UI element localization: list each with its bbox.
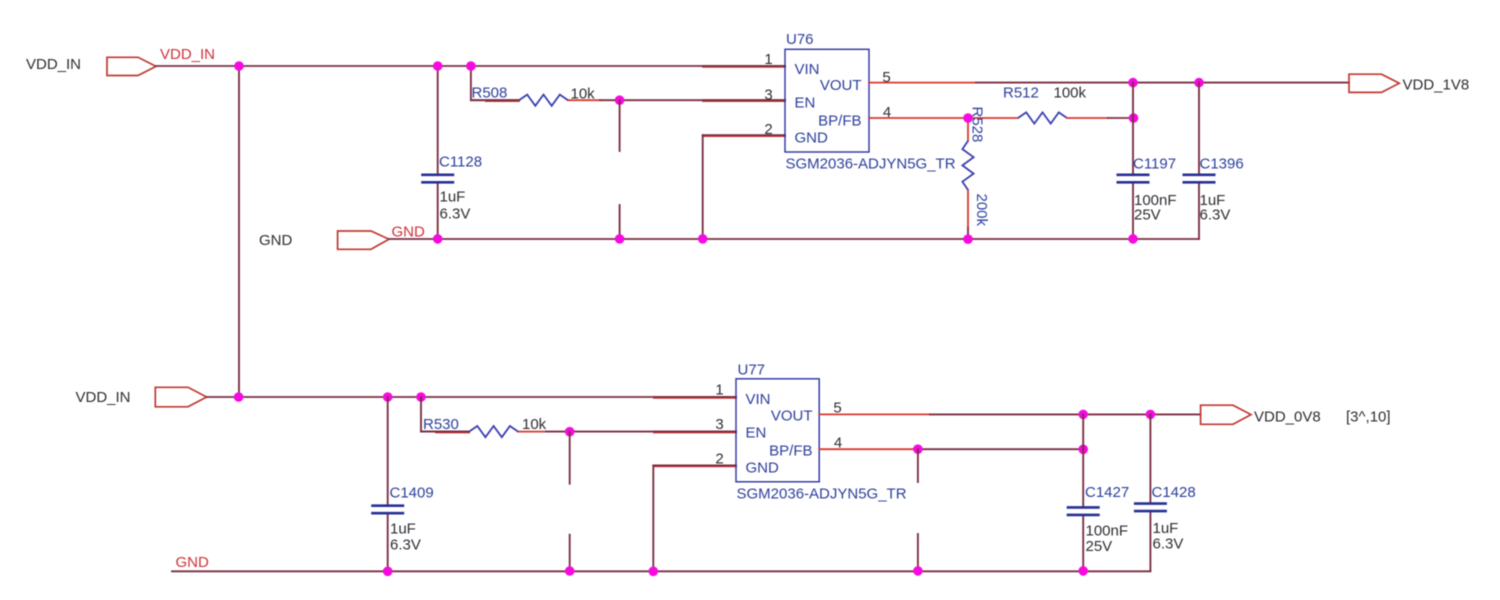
node junction (421,397) [416, 392, 426, 402]
capacitor C1128 [421, 154, 482, 223]
svg-text:1: 1 [715, 382, 723, 399]
svg-text:VDD_1V8: VDD_1V8 [1403, 77, 1470, 94]
svg-text:VDD_0V8: VDD_0V8 [1254, 409, 1321, 426]
node junction (653.3,571.3) [649, 567, 659, 577]
resistor R512 100k [1003, 85, 1108, 124]
label VDD_IN (black, circuit 2) [76, 389, 131, 406]
node junction (1083.2,449.3) [1078, 445, 1088, 455]
svg-text:VIN: VIN [795, 61, 820, 78]
svg-text:6.3V: 6.3V [1200, 207, 1231, 224]
wire stub above GND rail (c2 left) [569, 535, 571, 572]
pin 2 GND lead [703, 121, 785, 138]
svg-text:R530: R530 [423, 416, 459, 433]
pin 4 BP/FB lead [869, 104, 1018, 121]
pin 5 VOUT lead (U77) [819, 400, 930, 417]
pin 4 BP/FB lead (U77) [819, 435, 918, 452]
svg-text:VDD_IN: VDD_IN [26, 56, 81, 73]
wire left vertical trunk to circuit 2 [238, 66, 240, 397]
label VDD_IN (black, left) [26, 56, 81, 73]
svg-text:1uF: 1uF [1153, 520, 1179, 537]
node junction (387.7,397) [383, 392, 393, 402]
resistor R528 200k (vertical) [962, 107, 990, 229]
svg-text:R528: R528 [969, 107, 986, 143]
pin 3 EN lead (U77) [654, 416, 736, 433]
svg-text:C1409: C1409 [390, 485, 434, 502]
svg-text:VDD_IN: VDD_IN [76, 389, 131, 406]
svg-text:GND: GND [176, 554, 210, 571]
net name GND (red, circuit 2) [176, 554, 210, 571]
svg-text:1uF: 1uF [440, 189, 466, 206]
wire C1396 vertical [1198, 83, 1200, 239]
node junction (1133,82.6) [1128, 78, 1138, 88]
wire C1128 vertical [437, 66, 439, 239]
svg-text:6.3V: 6.3V [390, 537, 421, 554]
wire stub below EN junction (c2) [569, 432, 571, 484]
node junction (437.7,66) [433, 61, 443, 71]
wire VDD_IN main (top) [156, 65, 785, 67]
pin 2 GND lead (U77) [653, 451, 736, 468]
node junction (1150.4,414.4) [1146, 410, 1156, 420]
node junction (1133.5,118) [1129, 113, 1139, 123]
port VDD_IN (input, circuit 2) [155, 387, 206, 407]
port VDD_0V8 (output) [1201, 405, 1321, 425]
svg-text:6.3V: 6.3V [440, 206, 471, 223]
net name GND (red) [392, 224, 426, 241]
wire VOUT net to port (c2) [930, 413, 1201, 415]
svg-text:U77: U77 [738, 362, 766, 379]
wire R508 branch drop [471, 66, 519, 100]
svg-text:3: 3 [715, 416, 723, 433]
pin 1 VIN lead (U77) [654, 382, 736, 399]
svg-text:VOUT: VOUT [771, 408, 813, 425]
node junction (1199,82.6) [1194, 78, 1204, 88]
svg-text:100nF: 100nF [1086, 523, 1129, 540]
wire C1409 vertical [387, 397, 389, 571]
svg-text:4: 4 [834, 435, 842, 452]
svg-text:3: 3 [764, 87, 772, 104]
node junction (968,239.2) [963, 234, 973, 244]
wire stub above GND rail [619, 205, 621, 239]
node junction (1083.2,414.4) [1078, 410, 1088, 420]
wire EN net to U76 [600, 99, 785, 101]
svg-text:SGM2036-ADJYN5G_TR: SGM2036-ADJYN5G_TR [737, 486, 907, 503]
svg-text:C1427: C1427 [1085, 484, 1129, 501]
wire FB net (c2) [918, 448, 1083, 450]
svg-text:2: 2 [715, 451, 723, 468]
wire stub above GND rail (c2 mid) [917, 534, 919, 571]
svg-text:100k: 100k [1054, 85, 1087, 102]
svg-text:U76: U76 [786, 31, 814, 48]
wire GND rail (bottom circuit) [172, 570, 1150, 572]
svg-text:5: 5 [833, 400, 841, 417]
capacitor C1197 [1117, 156, 1177, 224]
pin 3 EN lead [703, 87, 785, 104]
capacitor C1428 [1134, 484, 1196, 553]
node junction (569.7,571) [565, 566, 575, 576]
pin 1 VIN lead [703, 51, 785, 68]
svg-text:25V: 25V [1134, 207, 1161, 224]
wire R530 branch drop [421, 397, 469, 432]
wire stub below EN junction [619, 100, 621, 151]
node junction (569.7,431.7) [565, 427, 575, 437]
wire C1428 vertical [1149, 414, 1151, 571]
wire stub below FB junction (c2) [917, 449, 919, 482]
pin 5 VOUT lead [869, 69, 976, 86]
wire EN net to U77 [546, 431, 736, 433]
svg-text:25V: 25V [1086, 538, 1113, 555]
svg-text:BP/FB: BP/FB [818, 113, 861, 130]
capacitor C1409 [371, 485, 434, 554]
svg-text:6.3V: 6.3V [1153, 536, 1184, 553]
node junction (238.6,397) [234, 392, 244, 402]
svg-text:GND: GND [746, 460, 780, 477]
node junction (968,118) [963, 113, 973, 123]
svg-text:C1428: C1428 [1152, 484, 1196, 501]
wire C1197 vertical [1132, 83, 1134, 239]
svg-text:VDD_IN: VDD_IN [160, 46, 215, 63]
wire GND pin drop (U77) [652, 465, 654, 571]
svg-text:R508: R508 [472, 85, 508, 102]
svg-text:GND: GND [259, 232, 293, 249]
svg-text:GND: GND [795, 130, 829, 147]
node junction (619.6,238.9) [615, 234, 625, 244]
node junction (1133,238.9) [1128, 234, 1138, 244]
resistor R508 10k [471, 85, 600, 106]
svg-text:[3^,10]: [3^,10] [1346, 409, 1391, 426]
svg-text:C1128: C1128 [439, 154, 482, 171]
node junction (917.9,570.9) [913, 566, 923, 576]
capacitor C1427 [1067, 484, 1130, 555]
wire VOUT net to port [976, 82, 1349, 84]
svg-text:10k: 10k [571, 86, 596, 103]
svg-text:R512: R512 [1003, 85, 1039, 102]
svg-text:5: 5 [882, 69, 890, 86]
wire FB net to VOUT drop [1108, 117, 1134, 119]
port GND (top circuit) [338, 231, 389, 249]
svg-text:1uF: 1uF [390, 521, 416, 538]
node junction (1083.2,570.9) [1078, 566, 1088, 576]
svg-text:EN: EN [795, 95, 816, 112]
op-amp U76 (regulator SGM2036) [785, 31, 956, 173]
wire GND pin drop [702, 135, 704, 239]
svg-text:C1197: C1197 [1133, 156, 1176, 173]
svg-text:10k: 10k [522, 416, 547, 433]
node junction (239,66) [234, 61, 244, 71]
svg-text:2: 2 [764, 121, 772, 138]
svg-text:C1396: C1396 [1200, 156, 1244, 173]
wire C1427 vertical [1082, 414, 1084, 571]
port VDD_IN (input, top-left) [107, 57, 156, 75]
svg-text:1: 1 [764, 51, 772, 68]
svg-text:VIN: VIN [746, 391, 771, 408]
op-amp U77 (regulator SGM2036) [736, 362, 907, 503]
port VDD_1V8 (output) [1349, 74, 1469, 93]
node junction (437.7,238.9) [433, 234, 443, 244]
wire GND rail (top circuit) [389, 238, 1199, 240]
node junction (387.7,571.3) [383, 567, 393, 577]
node junction (702.7,238.9) [698, 234, 708, 244]
svg-text:VOUT: VOUT [820, 77, 862, 94]
node junction (619.6,100.2) [615, 95, 625, 105]
node junction (917.9,449.2) [913, 444, 923, 454]
svg-text:4: 4 [883, 104, 891, 121]
net name VDD_IN (red) [160, 46, 215, 63]
svg-text:GND: GND [392, 224, 426, 241]
label [3^,10] [1346, 409, 1391, 426]
node junction (470.9,66) [466, 61, 476, 71]
svg-text:BP/FB: BP/FB [769, 443, 812, 460]
capacitor C1396 [1183, 156, 1244, 224]
label GND (black) [259, 232, 293, 249]
svg-text:EN: EN [746, 425, 767, 442]
wire VDD_IN main (bottom) [207, 396, 736, 398]
wire R528 to GND rail [967, 228, 969, 239]
svg-text:SGM2036-ADJYN5G_TR: SGM2036-ADJYN5G_TR [786, 156, 956, 173]
svg-text:200k: 200k [973, 194, 990, 227]
resistor R530 10k [421, 416, 547, 437]
